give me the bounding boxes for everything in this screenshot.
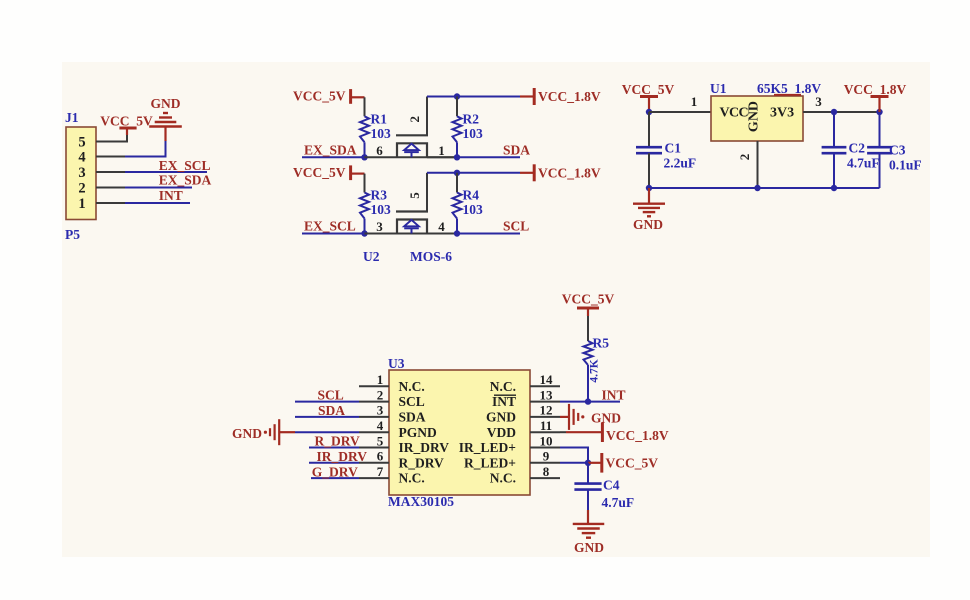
U1 pin 2 number (rotated) xyxy=(737,154,752,161)
U1 pin 3 stub xyxy=(803,111,830,113)
net label INT at J1 xyxy=(159,188,183,203)
junction at R1 / EX_SDA xyxy=(361,154,367,160)
svg-text:4: 4 xyxy=(438,219,445,234)
wire INT net at U3 pin13 xyxy=(560,401,620,403)
power VCC_5V at U3 pin9 xyxy=(588,453,602,473)
U3 pin name INT (pin 13) xyxy=(492,394,516,409)
wire J1 pin4 to GND xyxy=(96,128,166,157)
svg-text:2: 2 xyxy=(407,116,422,123)
pin number 3 of U2 xyxy=(376,219,383,234)
transistor U2 channel 3-4 body xyxy=(397,220,427,234)
U3 pin 1 stub xyxy=(359,385,389,387)
svg-text:G_DRV: G_DRV xyxy=(312,464,358,479)
value 4.7uF of C4 xyxy=(602,495,635,510)
power VCC_5V above R5 xyxy=(577,308,599,316)
svg-text:R2: R2 xyxy=(463,111,480,126)
svg-text:VCC_5V: VCC_5V xyxy=(622,82,675,97)
capacitor C2 xyxy=(822,112,847,188)
net label GND at U3 pin4 xyxy=(232,426,262,441)
U3 pin 14 number xyxy=(540,372,554,387)
transistor U2 channel 6-1 body xyxy=(397,143,427,157)
svg-text:VCC_5V: VCC_5V xyxy=(562,292,615,307)
svg-text:3: 3 xyxy=(78,165,85,181)
svg-text:C3: C3 xyxy=(889,143,906,158)
svg-text:0.1uF: 0.1uF xyxy=(889,158,922,173)
svg-text:C4: C4 xyxy=(603,478,620,493)
junction node / C2 top xyxy=(831,109,837,115)
svg-text:7: 7 xyxy=(377,464,384,479)
junction R5 / INT xyxy=(585,398,591,404)
U1 pin 3 number xyxy=(815,94,822,109)
svg-text:1: 1 xyxy=(691,94,698,109)
J1 pin 3 number xyxy=(78,165,85,181)
junction rail / C2 xyxy=(831,185,837,191)
U3 pin name N.C. (pin 8) xyxy=(490,471,516,486)
net label VCC_5V at U3 pin9 xyxy=(606,455,659,470)
svg-text:5: 5 xyxy=(377,433,384,448)
svg-text:EX_SCL: EX_SCL xyxy=(304,219,356,234)
wire SCL to U3 pin2 xyxy=(295,401,359,403)
svg-text:GND: GND xyxy=(747,101,762,132)
transistor U2 gate bar (pin 5) xyxy=(396,173,428,212)
pin number 4 of U2 xyxy=(438,219,445,234)
svg-text:EX_SDA: EX_SDA xyxy=(304,142,357,157)
svg-text:VCC_1.8V: VCC_1.8V xyxy=(538,165,601,180)
svg-text:VCC_1.8V: VCC_1.8V xyxy=(538,89,601,104)
net label VCC_5V near R1 xyxy=(293,89,346,104)
U3 pin 10 stub xyxy=(530,447,560,449)
svg-text:4.7uF: 4.7uF xyxy=(847,156,880,171)
net label SDA xyxy=(503,142,530,157)
svg-text:J1: J1 xyxy=(65,110,79,125)
wire U1 pin3 to VCC_1.8V node xyxy=(830,111,880,113)
net label VCC_5V near R3 xyxy=(293,165,346,180)
wire GND to U3 pin4 xyxy=(295,431,359,433)
wire SDA to U3 pin3 xyxy=(295,416,359,418)
U3 pin 6 number xyxy=(377,449,384,464)
svg-text:103: 103 xyxy=(463,202,484,217)
junction R4 / SCL xyxy=(454,230,460,236)
U3 pin 11 number xyxy=(540,418,552,433)
wire J1 pin1 INT xyxy=(96,202,190,204)
label R1 xyxy=(371,111,388,126)
U1 pin name VCC xyxy=(720,106,749,121)
U3 pin 12 number xyxy=(540,403,553,418)
U3 pin name GND (pin 12) xyxy=(486,410,516,425)
svg-text:SDA: SDA xyxy=(399,410,426,425)
connector J1 body xyxy=(66,127,96,220)
svg-text:6: 6 xyxy=(376,143,383,158)
svg-text:VCC_5V: VCC_5V xyxy=(100,114,153,129)
U3 pin 4 stub xyxy=(359,431,389,433)
wire VDD to VCC_1.8V xyxy=(560,431,601,433)
svg-text:GND: GND xyxy=(151,96,181,111)
U3 pin 12 stub xyxy=(530,416,560,418)
svg-text:12: 12 xyxy=(540,403,553,418)
U3 pin 6 stub xyxy=(359,462,389,464)
U3 pin 2 stub xyxy=(359,401,389,403)
svg-text:SCL: SCL xyxy=(399,394,425,409)
U3 pin 11 stub xyxy=(530,431,560,433)
wire G_DRV to U3 pin7 xyxy=(311,477,359,479)
U3 pin name PGND (pin 4) xyxy=(399,425,437,440)
svg-text:R_DRV: R_DRV xyxy=(399,455,445,470)
svg-text:EX_SCL: EX_SCL xyxy=(159,158,211,173)
capacitor C3 xyxy=(867,112,892,188)
svg-text:6: 6 xyxy=(377,449,384,464)
value 2.2uF of C1 xyxy=(664,156,697,171)
U3 pin name N.C. (pin 1) xyxy=(399,379,425,394)
net label GND at J1 xyxy=(151,96,181,111)
label R3 xyxy=(371,188,388,203)
U3 pin name IR_DRV (pin 5) xyxy=(399,440,450,455)
value 103 of R2 xyxy=(463,126,484,141)
net label GND at U1 xyxy=(633,217,663,232)
svg-text:SCL: SCL xyxy=(503,219,529,234)
value 4.7uF of C2 xyxy=(847,156,880,171)
svg-text:VCC_5V: VCC_5V xyxy=(606,455,659,470)
svg-text:MOS-6: MOS-6 xyxy=(410,249,452,264)
designator J1 xyxy=(65,110,79,125)
red mark under 65K5_1.8V xyxy=(774,94,801,96)
capacitor C1 xyxy=(636,112,662,188)
svg-text:INT: INT xyxy=(602,388,626,403)
U3 pin 9 number xyxy=(543,449,550,464)
wire net SDA xyxy=(457,156,520,158)
part name MOS-6 xyxy=(410,249,452,264)
svg-text:INT: INT xyxy=(492,394,516,409)
svg-text:C2: C2 xyxy=(849,141,866,156)
U3 pin 13 number xyxy=(540,387,554,402)
svg-text:SDA: SDA xyxy=(503,142,530,157)
net label SDA at U3 xyxy=(318,403,345,418)
sensor U3 body xyxy=(389,370,530,495)
designator U1 xyxy=(710,81,727,96)
regulator U1 body xyxy=(711,96,803,141)
wire R1 to EX_SDA net xyxy=(364,142,366,157)
pin number 2 of U2 (rotated) xyxy=(407,116,422,123)
svg-text:R_LED+: R_LED+ xyxy=(464,455,516,470)
svg-text:IR_DRV: IR_DRV xyxy=(399,440,450,455)
U3 pin name SDA (pin 3) xyxy=(399,410,426,425)
svg-text:IR_DRV: IR_DRV xyxy=(317,449,368,464)
value 103 of R3 xyxy=(371,202,392,217)
wire MOSFET pin 1 to junction xyxy=(427,156,457,158)
wire gate rail to VCC_1.8V (R4) xyxy=(427,172,520,174)
svg-text:VCC_1.8V: VCC_1.8V xyxy=(844,82,907,97)
resistor R3 xyxy=(360,193,369,219)
svg-text:R5: R5 xyxy=(593,336,610,351)
svg-text:103: 103 xyxy=(371,126,392,141)
label R4 xyxy=(463,188,480,203)
svg-text:U3: U3 xyxy=(388,356,405,371)
U3 pin 8 stub xyxy=(530,477,560,479)
ground GND at U3 pin12 xyxy=(560,404,584,430)
ground GND below C1 xyxy=(633,188,665,216)
net label VCC_5V above R5 xyxy=(562,292,615,307)
U3 pin 4 number xyxy=(377,418,384,433)
wire J1 pin2 EX_SDA xyxy=(96,187,192,189)
svg-text:3V3: 3V3 xyxy=(770,106,794,121)
net label VCC_5V at J1 xyxy=(100,114,153,129)
svg-text:GND: GND xyxy=(574,540,604,555)
wire R2 to SDA net xyxy=(456,142,458,157)
svg-text:2.2uF: 2.2uF xyxy=(664,156,697,171)
value 0.1uF of C3 xyxy=(889,158,922,173)
pin number 6 of U2 xyxy=(376,143,383,158)
pin number 1 of U2 xyxy=(438,143,445,158)
designator U3 xyxy=(388,356,405,371)
svg-text:GND: GND xyxy=(591,411,621,426)
svg-text:103: 103 xyxy=(463,126,484,141)
svg-text:14: 14 xyxy=(540,372,554,387)
net label EX_SCL at J1 xyxy=(159,158,211,173)
wire IR_DRV to U3 pin6 xyxy=(309,462,359,464)
svg-text:1: 1 xyxy=(438,143,445,158)
wire VCC_5V to R5 xyxy=(587,316,589,341)
U3 pin 3 number xyxy=(377,403,384,418)
U3 pin 7 number xyxy=(377,464,384,479)
svg-text:P5: P5 xyxy=(65,227,80,242)
svg-text:5: 5 xyxy=(407,192,422,199)
wire U3 pin10 to pin9 net xyxy=(560,448,588,463)
svg-text:VDD: VDD xyxy=(487,425,516,440)
body-diode arrow of U2 6-1 xyxy=(404,144,419,158)
resistor R4 xyxy=(453,193,462,219)
value 103 of R1 xyxy=(371,126,392,141)
svg-text:13: 13 xyxy=(540,387,554,402)
svg-text:VCC: VCC xyxy=(720,106,749,121)
svg-text:VCC_5V: VCC_5V xyxy=(293,165,346,180)
U3 pin name N.C. (pin 14) xyxy=(490,379,516,394)
schematic sheet xyxy=(62,62,930,557)
junction at R3 / EX_SCL xyxy=(361,230,367,236)
U3 pin name SCL (pin 2) xyxy=(399,394,425,409)
U3 pin name R_LED+ (pin 9) xyxy=(464,455,516,470)
wire net SCL xyxy=(457,233,520,235)
label R2 xyxy=(463,111,480,126)
svg-text:U1: U1 xyxy=(710,81,727,96)
svg-text:4.7uF: 4.7uF xyxy=(602,495,635,510)
label R5 xyxy=(593,336,610,351)
svg-text:3: 3 xyxy=(815,94,822,109)
U3 pin name IR_LED+ (pin 10) xyxy=(459,440,516,455)
wire VCC_5V to R1 xyxy=(364,97,366,116)
svg-text:3: 3 xyxy=(376,219,383,234)
U3 pin 8 number xyxy=(543,464,550,479)
J1 pin 5 number xyxy=(78,135,85,151)
svg-text:U2: U2 xyxy=(363,249,380,264)
wire J1 pin5 to VCC_5V xyxy=(96,135,127,142)
power VCC_1.8V near R2 xyxy=(520,88,534,105)
net label EX_SDA xyxy=(304,142,357,157)
svg-text:4.7K: 4.7K xyxy=(589,359,601,382)
wire net EX_SDA xyxy=(302,156,365,158)
resistor R1 xyxy=(360,116,369,142)
svg-text:R4: R4 xyxy=(463,188,480,203)
svg-text:EX_SDA: EX_SDA xyxy=(159,173,212,188)
U3 pin 5 number xyxy=(377,433,384,448)
label P5 xyxy=(65,227,80,242)
U1 pin name 3V3 xyxy=(770,106,794,121)
net label VCC_1.8V at U3 pin11 xyxy=(606,428,669,443)
U3 pin 1 number xyxy=(377,372,384,387)
overbar of U3 pin name INT xyxy=(494,394,516,396)
power VCC_5V feeding R3 xyxy=(351,165,365,180)
net label VCC_5V at U1 xyxy=(622,82,675,97)
junction rail / C1 xyxy=(646,185,652,191)
junction rail / U1 pin2 xyxy=(754,185,760,191)
value 4.7K of R5 (rotated) xyxy=(589,359,601,382)
svg-text:5: 5 xyxy=(78,135,85,151)
svg-text:SCL: SCL xyxy=(318,388,344,403)
wire R4 to SCL net xyxy=(456,219,458,234)
U3 pin 13 stub xyxy=(530,401,560,403)
svg-text:1: 1 xyxy=(377,372,384,387)
wire rail to R2 xyxy=(456,97,458,117)
svg-text:1: 1 xyxy=(78,196,85,212)
wire R_DRV to U3 pin5 xyxy=(309,447,359,449)
svg-text:VCC_5V: VCC_5V xyxy=(293,89,346,104)
svg-text:R_DRV: R_DRV xyxy=(315,434,361,449)
junction node / C3 top xyxy=(876,109,882,115)
svg-text:10: 10 xyxy=(540,433,553,448)
svg-text:C1: C1 xyxy=(665,141,682,156)
wire J1 pin3 EX_SCL xyxy=(96,171,207,173)
J1 pin 4 number xyxy=(78,150,85,166)
designator U2 xyxy=(363,249,380,264)
junction rail / R4 xyxy=(454,170,460,176)
wire MOSFET pin 4 to junction xyxy=(427,233,457,235)
ground GND at U3 pin4 xyxy=(264,419,295,445)
net label VCC_1.8V near R4 xyxy=(538,165,601,180)
wire gate rail to VCC_1.8V (R2) xyxy=(427,96,520,98)
wire U3 pin9 R_LED+ net xyxy=(560,462,588,464)
transistor U2 gate bar (pin 2) xyxy=(396,97,428,136)
svg-text:N.C.: N.C. xyxy=(490,471,516,486)
power VCC_1.8V at U3 pin11 xyxy=(601,422,604,442)
wire R3 to EX_SCL net xyxy=(364,219,366,234)
wire net EX_SCL xyxy=(302,233,365,235)
net label INT at U3 xyxy=(602,388,626,403)
wire rail to R4 xyxy=(456,173,458,193)
ground GND below C4 xyxy=(573,510,605,538)
svg-text:VCC_1.8V: VCC_1.8V xyxy=(606,428,669,443)
part name MAX30105 xyxy=(388,494,454,509)
net label GND at U3 pin12 xyxy=(591,411,621,426)
svg-text:9: 9 xyxy=(543,449,550,464)
net label R_DRV at U3 xyxy=(315,434,361,449)
svg-text:GND: GND xyxy=(633,217,663,232)
junction VCC node / C1 xyxy=(646,109,652,115)
svg-text:N.C.: N.C. xyxy=(490,379,516,394)
ground rail of U1 section xyxy=(649,187,880,189)
svg-text:R3: R3 xyxy=(371,188,388,203)
net label IR_DRV at U3 xyxy=(317,449,368,464)
net label VCC_1.8V at U1 xyxy=(844,82,907,97)
net label EX_SDA at J1 xyxy=(159,173,212,188)
svg-text:4: 4 xyxy=(377,418,384,433)
U3 pin 2 number xyxy=(377,387,384,402)
J1 pin 1 number xyxy=(78,196,85,212)
label C3 xyxy=(889,143,906,158)
svg-text:MAX30105: MAX30105 xyxy=(388,494,454,509)
svg-text:4: 4 xyxy=(78,150,85,166)
svg-text:SDA: SDA xyxy=(318,403,345,418)
svg-text:2: 2 xyxy=(78,181,85,197)
wire R5 to INT net xyxy=(587,365,589,402)
U3 pin 7 stub xyxy=(359,477,389,479)
U3 pin 3 stub xyxy=(359,416,389,418)
value 103 of R4 xyxy=(463,202,484,217)
power VCC_1.8V at U1 xyxy=(871,97,889,113)
U3 pin name R_DRV (pin 6) xyxy=(399,455,445,470)
value 65K5_1.8V of U1 xyxy=(757,81,821,96)
svg-text:2: 2 xyxy=(377,387,384,402)
label C4 xyxy=(603,478,620,493)
svg-text:R1: R1 xyxy=(371,111,388,126)
label C1 xyxy=(665,141,682,156)
pin number 5 of U2 (rotated) xyxy=(407,192,422,199)
junction pin9/pin10/C4 xyxy=(585,460,591,466)
svg-text:PGND: PGND xyxy=(399,425,437,440)
svg-text:103: 103 xyxy=(371,202,392,217)
svg-text:2: 2 xyxy=(737,154,752,161)
svg-text:65K5_1.8V: 65K5_1.8V xyxy=(757,81,821,96)
capacitor C4 xyxy=(574,463,601,510)
U1 pin name GND (rotated) xyxy=(747,101,762,132)
U3 pin 10 number xyxy=(540,433,553,448)
svg-text:GND: GND xyxy=(232,426,262,441)
net label G_DRV at U3 xyxy=(312,464,358,479)
net label VCC_1.8V near R2 xyxy=(538,89,601,104)
wire EX_SCL to MOSFET pin 3 xyxy=(365,233,458,235)
svg-text:GND: GND xyxy=(486,410,516,425)
svg-text:INT: INT xyxy=(159,188,183,203)
U3 pin 9 stub xyxy=(530,462,560,464)
svg-text:3: 3 xyxy=(377,403,384,418)
svg-text:N.C.: N.C. xyxy=(399,379,425,394)
wire node to U1 pin 1 xyxy=(649,111,711,113)
resistor R2 xyxy=(453,116,462,142)
body-diode arrow of U2 3-4 xyxy=(404,220,419,234)
wire VCC_5V to R3 xyxy=(364,174,366,193)
ground GND at J1 xyxy=(149,113,182,127)
net label SCL xyxy=(503,219,529,234)
U1 pin 1 number xyxy=(691,94,698,109)
label C2 xyxy=(849,141,866,156)
J1 pin 2 number xyxy=(78,181,85,197)
power VCC_5V at J1 xyxy=(119,128,136,135)
junction R2 / SDA xyxy=(454,154,460,160)
svg-text:8: 8 xyxy=(543,464,550,479)
U3 pin 14 stub xyxy=(530,385,560,387)
svg-text:N.C.: N.C. xyxy=(399,471,425,486)
power VCC_5V feeding R1 xyxy=(351,89,365,104)
junction rail / R2 xyxy=(454,93,460,99)
wire EX_SDA to MOSFET pin 6 xyxy=(365,156,458,158)
U3 pin name VDD (pin 11) xyxy=(487,425,516,440)
resistor R5 xyxy=(584,341,593,365)
power VCC_1.8V near R4 xyxy=(520,164,534,181)
svg-text:IR_LED+: IR_LED+ xyxy=(459,440,516,455)
net label SCL at U3 xyxy=(318,388,344,403)
svg-text:11: 11 xyxy=(540,418,552,433)
net label GND below C4 xyxy=(574,540,604,555)
power VCC_5V at U1 xyxy=(640,97,658,113)
U1 pin 2 stub xyxy=(757,141,759,188)
U3 pin name N.C. (pin 7) xyxy=(399,471,425,486)
